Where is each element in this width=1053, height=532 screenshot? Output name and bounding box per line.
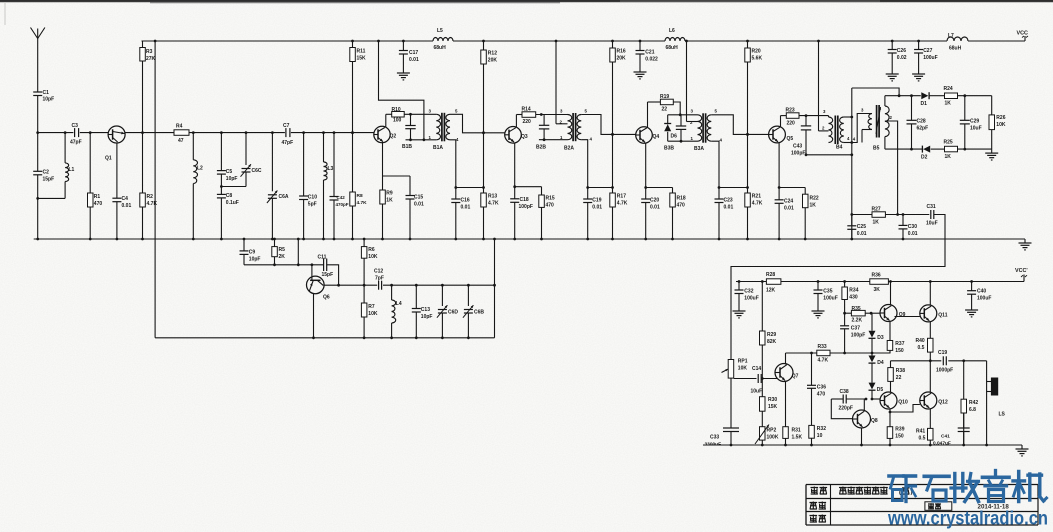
svg-text:R40: R40: [916, 338, 925, 344]
resistor R6: [361, 238, 377, 286]
svg-text:C6A: C6A: [279, 194, 289, 200]
wire Q1 emitter: [116, 143, 118, 198]
inductor L1: [38, 131, 75, 198]
svg-text:C30: C30: [908, 224, 917, 230]
capacitor C32: [735, 280, 759, 306]
wire B1 bottom: [406, 138, 437, 141]
resistor R18: [670, 188, 686, 241]
svg-text:0.5: 0.5: [919, 436, 926, 442]
wire B5 secondary top: [885, 94, 921, 106]
wire R19 to tank B3: [673, 102, 681, 116]
svg-text:C21: C21: [645, 50, 654, 56]
svg-text:C4: C4: [122, 196, 129, 202]
svg-text:C28: C28: [917, 119, 926, 125]
transistor Q6: [307, 265, 330, 301]
svg-text:L3: L3: [328, 166, 334, 172]
wire Q10 to Q12 base: [890, 405, 920, 413]
wire tie C23 R21: [719, 187, 748, 189]
resistor R12: [481, 40, 498, 133]
capacitor C25: [847, 215, 866, 240]
svg-text:C7: C7: [283, 123, 290, 129]
svg-text:R2: R2: [147, 194, 154, 200]
capacitor C31: [926, 204, 938, 227]
resistor R29: [760, 280, 777, 378]
capacitor C36: [807, 352, 826, 426]
svg-text:4.7K: 4.7K: [818, 358, 829, 364]
capacitor C8: [217, 187, 239, 241]
capacitor C19 IF bypass: [583, 186, 602, 240]
svg-text:1K: 1K: [810, 203, 817, 209]
wire R24 out: [958, 94, 992, 97]
wire RP1 bottom: [730, 378, 732, 428]
resistor R19: [660, 94, 673, 113]
svg-text:1K: 1K: [945, 101, 952, 107]
svg-text:C6B: C6B: [474, 310, 484, 316]
wire mid ground rail: [34, 238, 1025, 240]
capacitor C42: [330, 133, 349, 241]
wire Q1 collector line: [125, 132, 174, 134]
capacitor C26: [888, 40, 907, 68]
trimmer C6C: [221, 133, 261, 187]
svg-text:20K: 20K: [488, 58, 498, 64]
svg-text:C25: C25: [857, 224, 866, 230]
antenna: [31, 28, 45, 93]
wire C2 to ground rail: [36, 197, 39, 240]
svg-text:82K: 82K: [767, 339, 777, 345]
svg-text:R17: R17: [617, 194, 626, 200]
svg-text:RP2: RP2: [767, 428, 777, 434]
svg-text:C23: C23: [724, 198, 733, 204]
svg-text:D2: D2: [921, 155, 928, 161]
wire C11 out: [327, 265, 340, 287]
trimmer C6B: [463, 285, 484, 339]
wire Q10 emitter: [889, 409, 892, 427]
transistor Q10: [880, 392, 908, 409]
wire Q9 to Q11 base: [895, 316, 920, 318]
svg-text:Q2: Q2: [390, 134, 397, 140]
capacitor C29: [960, 96, 982, 149]
svg-text:100uF: 100uF: [977, 296, 991, 302]
svg-text:R3: R3: [146, 49, 153, 55]
wire Q9 emitter: [889, 321, 891, 341]
wire tie C24 R22: [779, 187, 805, 189]
wire B3 top: [668, 114, 698, 116]
svg-text:22: 22: [896, 375, 902, 381]
wire oscillator bottom rail: [155, 337, 494, 339]
svg-text:B1B: B1B: [402, 144, 412, 150]
svg-text:10uF: 10uF: [970, 126, 982, 132]
svg-text:220: 220: [787, 121, 796, 127]
svg-text:C40: C40: [977, 289, 986, 295]
node R20 base junction: [746, 133, 749, 136]
svg-text:R18: R18: [677, 196, 686, 202]
svg-text:100pF: 100pF: [791, 151, 805, 157]
svg-text:R16: R16: [617, 49, 626, 55]
wire R35 to Q9 base: [871, 312, 880, 314]
svg-text:2K: 2K: [279, 254, 286, 260]
svg-text:L1: L1: [69, 167, 75, 173]
svg-text:LS: LS: [999, 412, 1006, 418]
svg-text:D1: D1: [921, 101, 928, 107]
svg-text:C32: C32: [744, 289, 753, 295]
resistor R10: [392, 107, 405, 124]
svg-text:15pF: 15pF: [322, 272, 334, 278]
svg-text:C15: C15: [414, 195, 423, 201]
wire B3A secondary to Q5: [711, 115, 769, 136]
capacitor C23: [715, 186, 734, 240]
svg-text:C26: C26: [897, 48, 906, 54]
svg-text:C10: C10: [308, 195, 317, 201]
svg-text:R39: R39: [895, 427, 904, 433]
svg-text:R11: R11: [357, 49, 366, 55]
svg-text:47pF: 47pF: [282, 140, 294, 146]
wire Q11 collector: [929, 280, 932, 305]
svg-text:L2: L2: [197, 166, 203, 172]
wire speaker feed: [985, 361, 988, 447]
ground detector: [985, 149, 998, 160]
svg-text:C33: C33: [710, 435, 719, 441]
svg-text:22: 22: [662, 107, 668, 113]
svg-text:C9: C9: [249, 250, 256, 256]
svg-text:68uH: 68uH: [666, 45, 679, 51]
svg-text:R42: R42: [969, 400, 978, 406]
svg-text:470pF: 470pF: [336, 202, 349, 207]
wire R12 to R13: [482, 133, 485, 189]
svg-text:D6: D6: [671, 134, 678, 140]
svg-text:C43: C43: [793, 144, 802, 150]
ground C17: [397, 66, 410, 80]
resistor R34: [842, 280, 859, 313]
svg-text:4.7K: 4.7K: [357, 200, 368, 206]
transistor Q1: [105, 126, 125, 162]
resistor R17: [610, 188, 628, 241]
svg-text:4.7K: 4.7K: [752, 201, 763, 207]
text title row3 label: [810, 515, 827, 523]
capacitor C18: [510, 187, 533, 241]
wire Q3 emitter: [513, 143, 516, 189]
svg-text:C5: C5: [226, 169, 233, 175]
svg-text:R9: R9: [386, 191, 393, 197]
wire Q7 collector: [785, 353, 787, 365]
svg-text:R31: R31: [792, 428, 801, 434]
resistor R15: [539, 187, 555, 241]
wire Q10 base: [872, 398, 880, 400]
wire B1A pin4 down: [450, 140, 456, 188]
svg-text:R8: R8: [357, 193, 363, 199]
wire oscillator emitter line: [324, 284, 496, 287]
svg-text:10: 10: [817, 433, 823, 439]
capacitor B1B tank cap: [402, 114, 416, 150]
wire Q12 emitter: [929, 409, 931, 429]
diode D6: [664, 115, 677, 141]
svg-text:15K: 15K: [357, 56, 367, 62]
transistor Q7: [775, 364, 799, 382]
wire B2A pin4 down: [581, 140, 587, 188]
svg-text:15K: 15K: [768, 404, 778, 410]
capacitor C17: [399, 40, 419, 66]
svg-text:0.5: 0.5: [918, 345, 925, 351]
capacitor C15: [383, 176, 424, 240]
inductor L5: [433, 28, 453, 51]
wire tie C20 R18: [646, 187, 673, 189]
svg-text:430: 430: [849, 295, 858, 301]
svg-text:L4: L4: [396, 301, 402, 307]
capacitor C27: [914, 40, 938, 68]
svg-text:0.01: 0.01: [409, 57, 419, 63]
wire R42 C41 branch: [963, 361, 965, 399]
svg-text:4.7K: 4.7K: [147, 201, 158, 207]
text title row2 label: [810, 502, 827, 510]
svg-text:C8: C8: [226, 193, 233, 199]
svg-text:5pF: 5pF: [308, 202, 317, 208]
wire Q7 emitter: [785, 381, 787, 427]
svg-text:3K: 3K: [874, 287, 881, 293]
transistor Q3: [505, 127, 528, 144]
resistor R26: [989, 96, 1006, 149]
wire tie C19 R17: [588, 187, 613, 189]
svg-text:1000pF: 1000pF: [936, 368, 953, 374]
svg-text:C2: C2: [43, 170, 50, 176]
wire C14 to Q7 base: [761, 377, 778, 380]
svg-text:10K: 10K: [368, 254, 378, 260]
wire Q8 emitter: [860, 428, 863, 446]
ground mid rail right end: [1019, 239, 1032, 250]
watermark url: [887, 509, 1048, 530]
svg-text:C3: C3: [72, 123, 79, 129]
wire RP1 wiper to C14: [734, 378, 757, 380]
transistor Q5: [769, 126, 794, 143]
resistor R39: [887, 427, 904, 447]
capacitor C43: [791, 116, 811, 157]
wire Q8 collector: [863, 399, 865, 410]
wire driver collector line: [786, 352, 891, 355]
svg-text:VCC: VCC: [1017, 31, 1028, 37]
svg-text:470: 470: [677, 203, 686, 209]
svg-text:C27: C27: [923, 48, 932, 54]
wire R16 to R17: [611, 134, 614, 189]
capacitor C7: [282, 123, 294, 146]
resistor R23: [786, 108, 800, 127]
svg-text:R7: R7: [368, 304, 375, 310]
svg-text:0.1uF: 0.1uF: [226, 200, 239, 206]
svg-text:Q11: Q11: [938, 313, 947, 319]
wire audio takeoff: [850, 213, 872, 216]
diode D3: [869, 313, 884, 353]
svg-text:R10: R10: [392, 107, 401, 113]
wire D2 to R25: [931, 148, 945, 150]
svg-text:10uF: 10uF: [751, 389, 763, 395]
wire R23 to tank B4: [799, 114, 829, 117]
svg-text:10pF: 10pF: [226, 176, 238, 182]
svg-text:Q4: Q4: [653, 134, 660, 140]
svg-text:R21: R21: [752, 194, 761, 200]
svg-text:C38: C38: [840, 389, 849, 395]
ground audio rail right end: [1016, 445, 1029, 456]
svg-text:C12: C12: [374, 269, 383, 275]
svg-text:Q6: Q6: [323, 295, 330, 301]
wire B4 bottom: [805, 153, 852, 156]
wire Q4 emitter: [644, 143, 647, 189]
capacitor C3: [70, 123, 82, 146]
wire oscillator tank right side: [493, 238, 496, 338]
transistor Q4: [636, 127, 660, 144]
svg-text:R30: R30: [768, 397, 777, 403]
svg-text:100K: 100K: [767, 435, 779, 441]
resistor R24: [944, 86, 958, 107]
wire Q6 bottom: [312, 294, 315, 340]
capacitor B2B tank cap: [536, 115, 549, 151]
svg-text:220: 220: [523, 119, 532, 125]
transformer B5: [847, 105, 893, 152]
svg-text:C35: C35: [823, 289, 832, 295]
node antenna junction: [36, 131, 39, 134]
wire B4 to detector corner: [852, 88, 901, 97]
resistor R22: [803, 188, 819, 241]
node R12 base junction: [482, 131, 485, 134]
diode D1: [921, 92, 930, 107]
svg-text:R20: R20: [752, 49, 761, 55]
trimmer C6A: [267, 133, 289, 241]
resistor R5: [272, 238, 285, 267]
watermark logo kuangshi shouyinji: [889, 471, 1047, 502]
svg-text:R38: R38: [896, 368, 905, 374]
svg-text:R27: R27: [872, 207, 881, 213]
svg-text:R35: R35: [852, 306, 861, 312]
resistor R37: [887, 341, 904, 355]
svg-text:1K: 1K: [386, 198, 393, 204]
text title row1 label: [811, 487, 828, 495]
svg-text:15pF: 15pF: [43, 177, 55, 183]
capacitor C35: [814, 280, 838, 306]
svg-text:0.01: 0.01: [461, 205, 471, 211]
resistor R4: [174, 124, 189, 145]
svg-text:D5: D5: [877, 387, 884, 393]
svg-text:Q7: Q7: [792, 374, 799, 380]
resistor R27: [872, 207, 886, 226]
node R34 R35 junction: [843, 312, 846, 315]
svg-text:0.01: 0.01: [414, 202, 424, 208]
wire Q11 emitter: [929, 321, 931, 338]
svg-text:0.01: 0.01: [724, 205, 734, 211]
svg-text:L5: L5: [437, 28, 443, 34]
svg-text:C42: C42: [337, 195, 346, 200]
speaker LS: [987, 378, 1006, 418]
resistor R30: [760, 379, 778, 427]
capacitor C19 output: [936, 350, 953, 374]
svg-text:C36: C36: [817, 385, 826, 391]
svg-text:B2B: B2B: [536, 145, 546, 151]
svg-text:R19: R19: [660, 94, 669, 100]
capacitor C9: [240, 238, 261, 265]
resistor R1: [88, 131, 103, 240]
svg-text:20K: 20K: [617, 56, 627, 62]
wire B1A secondary to Q3: [450, 114, 505, 134]
transistor Q8: [853, 410, 878, 428]
svg-text:R33: R33: [818, 344, 827, 350]
svg-text:0.022: 0.022: [645, 57, 658, 63]
svg-text:R14: R14: [522, 107, 531, 113]
svg-text:10pF: 10pF: [43, 97, 55, 103]
diode D2: [921, 146, 930, 161]
capacitor C33: [705, 428, 740, 447]
wire VCC feed to B4 tap: [817, 40, 828, 131]
wire B2A secondary to Q4: [581, 115, 636, 136]
svg-text:6.8: 6.8: [969, 407, 976, 413]
capacitor C38: [831, 389, 867, 412]
svg-text:C1: C1: [43, 90, 50, 96]
svg-text:B5: B5: [873, 146, 880, 152]
inductor L4: [390, 285, 402, 339]
svg-text:68uH: 68uH: [434, 45, 447, 51]
ground C21: [634, 66, 647, 79]
svg-text:B2A: B2A: [564, 146, 574, 152]
node R16 base junction: [611, 133, 614, 136]
svg-text:4.7K: 4.7K: [617, 201, 628, 207]
svg-text:4.7K: 4.7K: [488, 201, 499, 207]
wire Q4 collector: [648, 102, 661, 127]
inductor L2: [192, 133, 203, 241]
wire Q5 collector: [781, 116, 787, 127]
potentiometer RP2: [755, 425, 779, 447]
wire VCC feed to B1: [377, 40, 424, 140]
svg-text:L6: L6: [669, 28, 675, 34]
wire C7 to Q2 base: [291, 131, 374, 134]
svg-text:R28: R28: [766, 272, 775, 278]
wire C31 to audio input: [731, 215, 945, 360]
wire Q2 collector: [386, 114, 392, 127]
svg-text:0.02: 0.02: [897, 55, 907, 61]
resistor R32: [809, 425, 826, 446]
svg-text:C16: C16: [461, 198, 470, 204]
svg-text:C14: C14: [752, 366, 761, 372]
capacitor C1: [33, 90, 54, 133]
resistor R16: [610, 40, 626, 135]
power VCC2 audio: [1015, 268, 1028, 277]
svg-text:C19: C19: [592, 198, 601, 204]
svg-text:470: 470: [546, 203, 555, 209]
svg-text:R36: R36: [872, 273, 881, 279]
resistor R14: [522, 107, 536, 126]
svg-text:C19: C19: [938, 350, 947, 356]
svg-text:470: 470: [817, 392, 826, 398]
svg-text:C31: C31: [927, 204, 936, 210]
svg-text:B1A: B1A: [433, 145, 443, 151]
ground C40: [965, 305, 978, 317]
svg-text:68uH: 68uH: [949, 46, 962, 52]
power VCC top right: [1017, 31, 1029, 38]
svg-text:VCC': VCC': [1015, 268, 1028, 274]
svg-text:100uF: 100uF: [823, 296, 837, 302]
svg-text:Q8: Q8: [871, 418, 878, 424]
resistor R28: [766, 272, 781, 294]
wire Q12 collector: [929, 361, 931, 393]
svg-text:B4: B4: [836, 145, 843, 151]
svg-text:D4: D4: [877, 360, 884, 366]
node C5 C8 junction: [220, 185, 223, 188]
inductor L7: [947, 33, 968, 52]
svg-text:R4: R4: [176, 124, 183, 130]
wire R20 to R21: [746, 134, 749, 189]
ground C26: [886, 68, 899, 81]
capacitor C41: [933, 413, 970, 447]
resistor R13: [481, 188, 499, 241]
svg-text:1.5K: 1.5K: [792, 435, 803, 441]
svg-text:C13: C13: [421, 307, 430, 313]
capacitor C40: [967, 280, 991, 305]
resistor R3: [140, 41, 156, 133]
svg-text:R22: R22: [810, 196, 819, 202]
svg-text:RP1: RP1: [738, 359, 748, 365]
